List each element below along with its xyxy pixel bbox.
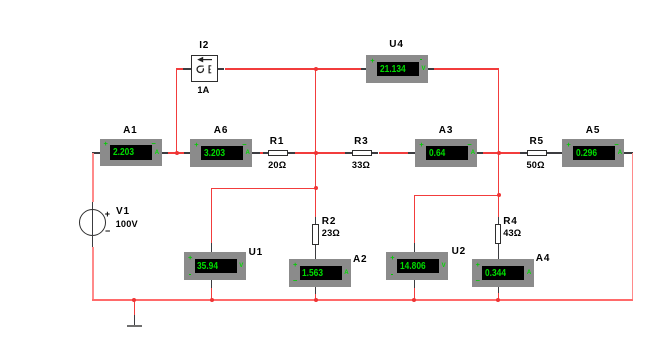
label V1 minus — [68, 226, 148, 237]
wire R3 right lead (black) — [372, 152, 379, 153]
A4 bottom junction — [496, 298, 500, 302]
label A3 — [406, 125, 486, 138]
wire R3 left lead (black) — [345, 152, 352, 153]
ammeter A2 — [289, 259, 351, 287]
wire R1 to node C (red) — [295, 152, 345, 153]
node F junction — [497, 193, 501, 197]
wire R1 left lead (black) — [263, 152, 268, 153]
wire U4 to right corner (red) — [434, 68, 499, 69]
wire A6 left lead (black) — [184, 152, 191, 153]
wire I2 to node T (red) — [225, 68, 316, 69]
wire V1 lead through circle (black) — [92, 202, 93, 247]
wire V1 lead inside circle (black) — [92, 210, 93, 236]
label R2 value — [322, 228, 340, 240]
label R3 — [321, 136, 401, 149]
wire center vertical (red) — [315, 69, 316, 217]
node D junction — [497, 151, 501, 155]
wire A6 right lead (black) — [252, 152, 260, 153]
label R3 value — [321, 160, 401, 172]
wire A1 left lead (black) — [92, 152, 100, 153]
wire I2 left lead (black) — [183, 68, 190, 69]
wire U1 vertical (red) — [211, 188, 212, 243]
wire node D segment (red) — [483, 152, 520, 153]
wire R2 to A2 (black) — [315, 245, 316, 259]
A2 bottom junction — [314, 298, 318, 302]
wire bottom bus (red) — [92, 299, 634, 301]
wire R1 right lead (black) — [287, 152, 295, 153]
label A5 — [553, 125, 633, 138]
wire A2 bottom lead (black) — [315, 286, 316, 294]
wire left vertical upper (light red) — [92, 153, 94, 202]
ground junction — [132, 298, 136, 302]
ground — [127, 325, 142, 327]
wire A3 left lead (black) — [408, 152, 415, 153]
wire U1 to bottom bus (red) — [211, 288, 212, 301]
wire corner to I2 (red) — [176, 68, 183, 69]
label R5 — [497, 136, 577, 149]
node C junction — [314, 151, 318, 155]
label I2 value — [163, 85, 243, 97]
current source I2 symbol — [191, 55, 219, 82]
wire center-right black lead into R4 — [498, 217, 499, 224]
wire R3 to A3 (red) — [379, 152, 409, 153]
wire ground stub (black) — [134, 315, 135, 325]
wire R4 bottom lead (black) — [498, 244, 499, 259]
node B junction — [175, 151, 179, 155]
wire ground stub (red) — [134, 300, 135, 315]
node T junction — [314, 67, 318, 71]
current source I2 box — [191, 55, 218, 82]
wire I2 right lead (black) — [218, 68, 225, 69]
label R2 — [322, 216, 336, 229]
wire A3 right lead (black) — [477, 152, 483, 153]
wire left vertical lower (light red) — [92, 247, 94, 301]
wire U1 top lead (black) — [211, 243, 212, 252]
resistor R3 — [352, 150, 372, 157]
wire vertical I2-branch x=176.6 — [176, 69, 177, 153]
voltmeter U1 — [184, 252, 246, 280]
resistor R1 — [268, 150, 288, 157]
wire U2 horizontal (red) — [414, 195, 499, 196]
wire right vertical (light red) — [632, 153, 634, 300]
wire A5 right lead (black) — [624, 152, 633, 153]
label V1 value — [116, 219, 138, 231]
wire U2 vertical (red) — [414, 195, 415, 243]
label U1 — [249, 247, 263, 260]
label R5 value — [496, 160, 576, 172]
wire U1 bottom lead (black) — [211, 280, 212, 288]
label I2 — [164, 40, 244, 53]
wire A1 right lead (black) — [161, 152, 168, 153]
label R4 value — [503, 228, 521, 240]
wire R5 left lead (black) — [520, 152, 527, 153]
wire U1 horizontal (red) — [211, 188, 316, 189]
wire A4 to bottom bus (red) — [498, 293, 499, 300]
ammeter A3 — [415, 139, 477, 167]
voltmeter U2 — [386, 252, 448, 280]
resistor R5 — [527, 150, 547, 157]
wire R5 right lead (black) — [547, 152, 563, 153]
wire red tick A6-R1 — [260, 152, 263, 153]
resistor R4 — [495, 224, 501, 244]
wire U2 top lead (black) — [414, 243, 415, 252]
label V1 — [116, 206, 130, 219]
wire U4 right lead (black) — [428, 68, 434, 69]
U1 bottom junction — [210, 298, 214, 302]
voltmeter U4 — [366, 55, 428, 83]
label R4 — [503, 216, 517, 229]
wire A4 bottom lead (black) — [498, 287, 499, 294]
wire A2 to bottom bus (red) — [315, 294, 316, 301]
label A4 — [536, 253, 550, 266]
label R1 value — [237, 160, 317, 172]
ammeter A6 — [190, 139, 252, 167]
wire U2 bottom lead (black) — [414, 280, 415, 288]
source V1 circle — [79, 209, 106, 236]
wire node T to U4 (red) — [316, 68, 361, 69]
wire U4 left lead (black) — [361, 68, 366, 69]
wire R2 top lead (black) — [315, 217, 316, 224]
ammeter A4 — [472, 259, 534, 287]
U2 bottom junction — [412, 298, 416, 302]
node E junction — [314, 186, 318, 190]
label R1 — [237, 136, 317, 149]
ammeter A1 — [100, 139, 162, 167]
label A2 — [353, 254, 367, 267]
label U2 — [452, 246, 466, 259]
label U4 — [357, 39, 437, 52]
resistor R2 — [312, 224, 319, 245]
label A1 — [90, 125, 170, 138]
wire vertical center-right x=498.7 (red) — [498, 69, 499, 217]
wire U2 to bottom bus (red) — [414, 288, 415, 300]
wire node B segment (red) — [168, 152, 183, 153]
label A6 — [181, 125, 261, 138]
label V1 plus — [67, 209, 147, 220]
ammeter A5 — [562, 139, 624, 167]
